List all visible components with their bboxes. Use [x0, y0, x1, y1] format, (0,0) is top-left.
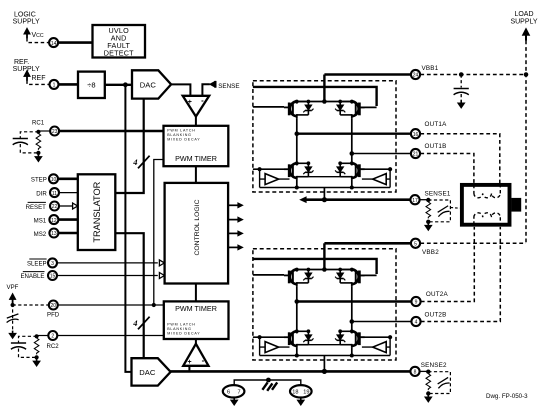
- node junction load supply: [524, 72, 529, 77]
- wire /8 to DAC1: [105, 84, 132, 86]
- svg-text:OUT2A: OUT2A: [426, 291, 449, 298]
- svg-text:5: 5: [414, 242, 417, 248]
- svg-text:OUT1A: OUT1A: [425, 121, 448, 128]
- wire dashed OUT2A to motor: [421, 227, 475, 302]
- svg-text:9: 9: [415, 300, 418, 306]
- wire driver2L drop: [259, 337, 261, 355]
- pin 5 VBB2: [411, 239, 420, 248]
- wire driver2R links: [362, 346, 390, 348]
- wire OUT2A node drop: [296, 286, 298, 331]
- transistor Q2 (bridge1 high-side B): [335, 100, 365, 119]
- node junction source1B: [350, 186, 354, 190]
- wire arrow gate drive 4: [228, 244, 244, 250]
- node junction sense1 R bottom: [426, 220, 430, 224]
- inductor winding 2 (bottom): [474, 213, 500, 225]
- svg-text:MS1: MS1: [34, 217, 47, 224]
- wire bridge1 right gate line bottom: [359, 168, 390, 170]
- resistor R-RC1: [36, 134, 41, 150]
- node junction sense1: [322, 197, 327, 202]
- wire dashed VCC to pin 14: [27, 38, 49, 43]
- wire OUT2B node drop: [351, 286, 353, 331]
- wire RC2 stub to external R: [37, 335, 49, 337]
- wire SENSE1 to external R: [420, 199, 429, 201]
- wire dashed VPF to PFD pin: [13, 304, 49, 306]
- wire driver1L drop: [259, 169, 261, 187]
- resistor R-SENSE1: [426, 202, 431, 218]
- node junction RC2 bottom: [35, 355, 39, 359]
- node bridge1 dashed box: [253, 81, 396, 192]
- svg-text:REF: REF: [32, 75, 46, 82]
- wire OUT1A node drop: [296, 118, 298, 163]
- op-amp comparator A2: [183, 344, 208, 366]
- wire dashed sense1 snubber box: [428, 200, 450, 222]
- svg-text:VCC: VCC: [32, 32, 44, 39]
- wire OUT1B node drop: [351, 118, 353, 163]
- svg-text:DETECT: DETECT: [104, 49, 134, 58]
- wire driver1L links: [260, 178, 290, 180]
- svg-text:DAC: DAC: [140, 81, 157, 90]
- ground pins 18 19: [297, 397, 304, 405]
- ground C-VBB1: [458, 100, 465, 108]
- pin 1 REF: [50, 80, 59, 89]
- wire bridge1 source rail: [260, 187, 391, 189]
- wire dashed load supply rail: [525, 41, 527, 244]
- wire bridge1 source stubs: [297, 180, 352, 188]
- wire ground link rail: [234, 380, 301, 386]
- wire bridge2 left gate line top: [253, 274, 284, 276]
- pin 2 RC2: [48, 331, 57, 340]
- transistor Q8 (bridge2 low-side B): [335, 329, 365, 348]
- wire dashed VBB1 cap lead: [460, 75, 462, 103]
- svg-text:7: 7: [237, 390, 240, 396]
- svg-text:DIR: DIR: [36, 190, 47, 197]
- wire bridge1 top gate rail: [253, 87, 377, 106]
- svg-text:STEP: STEP: [31, 177, 47, 184]
- svg-text:SENSE: SENSE: [218, 83, 239, 90]
- svg-text:PFD: PFD: [47, 311, 60, 318]
- node junction driver2L: [258, 335, 262, 339]
- pin 16 OUT1A: [411, 129, 420, 138]
- svg-text:RC2: RC2: [47, 343, 60, 350]
- node junction RC1 top: [36, 130, 40, 134]
- pin 13 MS2: [49, 229, 58, 238]
- block U1 UVLO AND FAULT DETECT: [93, 25, 146, 58]
- svg-text:15: 15: [50, 274, 56, 280]
- wire bridge1 left gate line top: [253, 106, 284, 108]
- svg-text:22: 22: [52, 204, 58, 210]
- wire SENSE1 line with arrow: [304, 198, 411, 201]
- op-amp gate driver 1R: [373, 174, 387, 185]
- wire bridge1 left gate line bottom: [253, 168, 284, 170]
- node bus slash 1: [138, 156, 150, 169]
- svg-text:PWM TIMER: PWM TIMER: [175, 154, 217, 163]
- wire VBB2 to bridge2: [324, 242, 411, 245]
- svg-text:VBB1: VBB1: [422, 65, 439, 72]
- svg-text:24: 24: [413, 73, 419, 79]
- wire MS2 to translator: [59, 232, 78, 235]
- node junction RC2 top: [35, 334, 39, 338]
- svg-text:RESET: RESET: [26, 204, 47, 211]
- svg-text:19: 19: [303, 390, 309, 396]
- wire VCC pin to UVLO: [58, 41, 92, 44]
- wire OUT1A from bridge1: [297, 132, 411, 134]
- pin 22 RESET: [50, 202, 59, 211]
- node junction driver1R: [388, 167, 392, 171]
- svg-text:OUT2B: OUT2B: [425, 311, 447, 318]
- node hook RESET input: [73, 203, 78, 209]
- svg-text:MIXED DECAY: MIXED DECAY: [167, 137, 200, 141]
- block PWM TIMER 1: [164, 126, 229, 166]
- node junction OUT2A: [295, 299, 300, 304]
- svg-text:TRANSLATOR: TRANSLATOR: [92, 181, 102, 242]
- node junction VBB1 drain: [322, 99, 327, 104]
- wire arrow gate drive 2: [228, 216, 244, 222]
- wire MS1 to translator: [59, 218, 78, 221]
- wire bridge2 lower diode link: [308, 344, 340, 346]
- wire bridge2 right gate line bottom: [359, 336, 390, 338]
- supply arrow REF: [24, 70, 31, 81]
- node junction ref line: [123, 82, 128, 87]
- svg-text:PWM LATCH: PWM LATCH: [167, 323, 196, 327]
- svg-text:2: 2: [51, 334, 54, 340]
- node junction RC1 bottom: [36, 151, 40, 155]
- svg-text:PWM LATCH: PWM LATCH: [167, 128, 196, 132]
- pin 12 MS1: [49, 215, 58, 224]
- svg-text:3: 3: [51, 261, 54, 267]
- svg-text:-: -: [201, 96, 204, 105]
- svg-text:4: 4: [415, 320, 418, 326]
- node bus slash 2: [138, 317, 150, 330]
- pin 3 SLEEP: [48, 258, 57, 267]
- node junction sense1 R: [426, 198, 430, 202]
- svg-text:SUPPLY: SUPPLY: [510, 19, 537, 26]
- wire REF pin to divider: [59, 83, 78, 86]
- supply arrow VCC: [24, 28, 31, 39]
- motor shaft tab: [511, 198, 521, 212]
- pin 10 STEP: [49, 174, 58, 183]
- pin 8 SENSE2: [410, 367, 419, 376]
- node junction VBB1 cap: [459, 72, 464, 77]
- wire SENSE flag to comparator minus: [202, 84, 209, 96]
- node junction sense2: [322, 369, 327, 374]
- node hook SLEEP input: [159, 260, 164, 266]
- svg-text:MS2: MS2: [34, 231, 47, 238]
- pin 9 OUT2A: [411, 297, 420, 306]
- wire dashed REF to pin 1: [27, 80, 49, 84]
- wire comparator2 plus stub: [188, 366, 190, 372]
- op-amp gate driver 2L: [265, 342, 279, 353]
- wire PWM1 to control logic: [195, 166, 197, 183]
- svg-text:21: 21: [413, 152, 419, 158]
- svg-text:OUT1B: OUT1B: [425, 143, 447, 150]
- ground RC2: [33, 358, 40, 366]
- wire bus translator to DAC1: [115, 99, 143, 193]
- svg-text:SUPPLY: SUPPLY: [13, 19, 40, 26]
- ground R-SENSE1: [425, 223, 432, 231]
- wire PWM2 to comparator2: [195, 339, 197, 344]
- wire SLEEP to control logic hook: [57, 262, 158, 264]
- node junction OUT1B: [350, 151, 355, 156]
- wire RC1 stub to external R: [38, 130, 50, 132]
- wire driver1R links: [362, 178, 390, 180]
- wire bridge2 source stubs: [297, 348, 352, 356]
- transistor Q5 (bridge2 high-side A): [284, 268, 314, 287]
- svg-text:BLANKING: BLANKING: [167, 133, 192, 137]
- wire Q6 gate link: [359, 274, 377, 276]
- supply arrow LOAD: [522, 28, 530, 41]
- pin 15 ENABLE: [48, 271, 57, 280]
- node junction OUT1A: [295, 131, 300, 136]
- svg-text:8: 8: [414, 370, 417, 376]
- op-amp gate driver 2R: [373, 342, 387, 353]
- wire RC2 to PWM2: [58, 335, 164, 337]
- svg-text:SLEEP: SLEEP: [27, 260, 47, 267]
- transistor Q3 (bridge1 low-side A): [284, 161, 314, 180]
- wire VBB1 to bridge1: [324, 73, 411, 76]
- pin 20 PFD: [49, 301, 58, 310]
- svg-text:20: 20: [51, 303, 57, 309]
- wire arrow gate drive 3: [228, 230, 244, 236]
- svg-text:REF.: REF.: [14, 59, 29, 66]
- node junction sense2 R bottom: [426, 391, 430, 395]
- wire control logic to PWM2: [195, 284, 197, 302]
- node hook ENABLE input: [159, 273, 164, 279]
- block TRANSLATOR: [78, 174, 116, 250]
- capacitor C-RC2: [11, 343, 26, 349]
- ground R-SENSE2: [425, 394, 432, 402]
- wire DIR to translator: [59, 192, 78, 194]
- op-amp gate driver 1L: [265, 174, 279, 185]
- pin 23 RC1: [50, 127, 59, 136]
- pin 21 OUT1B: [411, 149, 420, 158]
- wire comparator1 to PWM1: [195, 117, 197, 126]
- wire dashed OUT1A to motor: [420, 134, 500, 183]
- pin 14 VCC: [49, 38, 58, 47]
- svg-text:14: 14: [51, 41, 57, 47]
- svg-text:17: 17: [412, 198, 418, 204]
- wire RESET to translator hook: [59, 205, 72, 207]
- wire DAC1 to comparator plus: [171, 84, 190, 95]
- svg-text:16: 16: [413, 132, 419, 138]
- svg-text:6: 6: [227, 390, 230, 396]
- wire bridge1 drain rail: [297, 101, 352, 103]
- svg-text:BLANKING: BLANKING: [167, 327, 192, 331]
- wire PFD rail up to PWM1: [154, 160, 164, 306]
- transistor Q7 (bridge2 low-side A): [284, 329, 314, 348]
- node SENSE input flag: [210, 81, 215, 87]
- capacitor PFD tilted: [7, 314, 19, 323]
- node junction driver2R: [388, 335, 392, 339]
- wire SENSE2 feedback line: [171, 370, 411, 373]
- svg-text:SENSE2: SENSE2: [421, 362, 447, 369]
- node junction sense2 R: [426, 370, 430, 374]
- resistor R-SENSE2: [426, 374, 431, 390]
- svg-text:23: 23: [52, 129, 58, 135]
- ground pins 6 7: [231, 397, 238, 405]
- capacitor C-VBB1: [454, 89, 469, 95]
- ground VPF: [9, 331, 16, 339]
- wire OUT2A from bridge2: [297, 300, 412, 302]
- pin 11 DIR: [50, 188, 59, 197]
- node junction source2A: [295, 354, 299, 358]
- svg-text:4: 4: [132, 157, 137, 167]
- svg-text:LOAD: LOAD: [514, 11, 533, 18]
- ground power symbol (hatched): [262, 382, 277, 390]
- node junction ground center: [266, 378, 271, 383]
- svg-text:VBB2: VBB2: [422, 249, 439, 256]
- node junction driver1L: [258, 167, 262, 171]
- svg-text:1: 1: [53, 83, 56, 89]
- ground RC1: [35, 154, 42, 162]
- node junction VBB2 drain: [322, 267, 327, 272]
- capacitor C-SENSE1 tilted: [437, 206, 451, 217]
- node junction VPF: [11, 303, 15, 307]
- wire sense1 drop: [323, 188, 325, 200]
- svg-text:PWM TIMER: PWM TIMER: [175, 304, 217, 313]
- svg-text:RC1: RC1: [32, 120, 45, 127]
- motor M1 frame: [462, 185, 510, 225]
- pin 18 19 ground oval: [290, 385, 312, 397]
- wire SENSE2 to external R: [420, 370, 429, 372]
- block PWM TIMER 2: [164, 301, 229, 339]
- transistor Q4 (bridge1 low-side B): [335, 161, 365, 180]
- svg-text:+: +: [188, 99, 192, 106]
- svg-text:CONTROL LOGIC: CONTROL LOGIC: [194, 199, 201, 255]
- svg-text:12: 12: [51, 218, 57, 224]
- op-amp DAC U3 (pentagon): [132, 358, 171, 385]
- pin 6 7 ground oval: [223, 385, 245, 397]
- wire bridge2 top gate rail: [253, 259, 377, 274]
- wire driver2R drop: [389, 337, 391, 355]
- pin 24 VBB1: [411, 70, 420, 79]
- node bridge2 dashed box: [253, 249, 396, 360]
- pin 4 OUT2B: [411, 317, 420, 326]
- wire dashed OUT1B to motor: [420, 154, 474, 184]
- wire OUT2B from bridge2: [352, 321, 412, 323]
- supply arrow VPF: [9, 293, 16, 304]
- svg-text:13: 13: [51, 231, 57, 237]
- svg-text:÷8: ÷8: [87, 80, 95, 89]
- wire Q2 gate link: [359, 106, 377, 108]
- transistor Q6 (bridge2 high-side B): [335, 268, 365, 287]
- wire bridge2 left gate line bottom: [253, 336, 284, 338]
- block divider /8: [78, 72, 105, 98]
- wire dashed VBB2 to load supply: [420, 242, 526, 244]
- svg-text:Dwg. FP-050-3: Dwg. FP-050-3: [486, 393, 528, 400]
- wire bridge1 lower diode link: [308, 176, 340, 178]
- op-amp comparator A1: [183, 96, 210, 117]
- svg-text:SENSE1: SENSE1: [425, 190, 451, 197]
- pin 17 SENSE1: [410, 195, 419, 204]
- svg-text:18: 18: [292, 390, 298, 396]
- svg-text:10: 10: [51, 177, 57, 183]
- wire dashed VPF down: [12, 304, 14, 331]
- node junction source1A: [295, 186, 299, 190]
- wire dashed RC1 cap loop: [20, 132, 38, 153]
- svg-text:ENABLE: ENABLE: [20, 273, 44, 280]
- svg-text:-: -: [202, 356, 205, 365]
- block CONTROL LOGIC: [165, 183, 229, 284]
- capacitor C-SENSE2 tilted: [437, 377, 451, 388]
- wire driver1R drop: [389, 169, 391, 187]
- wire VBB1 entry: [323, 75, 325, 102]
- wire dashed RC2 cap loop: [19, 336, 37, 357]
- capacitor C-RC1: [13, 139, 28, 145]
- wire RC1 to PWM1: [59, 130, 163, 133]
- wire PFD to PWM2: [58, 304, 164, 306]
- node junction OUT2B: [350, 319, 355, 324]
- wire sense2 drop: [323, 356, 325, 372]
- node junction PFD branch: [152, 303, 156, 307]
- svg-text:LOGIC: LOGIC: [14, 12, 36, 19]
- svg-text:DAC: DAC: [139, 368, 156, 377]
- wire dashed snubber1 to motor: [451, 207, 460, 210]
- wire ENABLE to control logic hook: [57, 275, 158, 277]
- wire VBB2 entry: [323, 243, 325, 269]
- op-amp DAC U2 (pentagon): [132, 70, 171, 98]
- wire bus translator to DAC2: [115, 233, 143, 358]
- inductor winding 1 (top): [474, 185, 500, 198]
- wire dashed VBB1 to load supply: [420, 74, 526, 76]
- svg-text:4: 4: [132, 318, 137, 328]
- wire STEP to translator: [58, 178, 78, 181]
- wire dashed sense2 snubber box: [428, 372, 450, 394]
- wire bridge2 source rail: [260, 355, 391, 357]
- wire dashed OUT2B to motor: [421, 227, 501, 322]
- node junction source2B: [350, 354, 354, 358]
- wire ref rail down to DAC2: [125, 85, 131, 372]
- wire driver2L links: [260, 346, 290, 348]
- resistor R-RC2: [34, 338, 39, 354]
- svg-text:+: +: [188, 359, 192, 366]
- svg-text:11: 11: [52, 191, 57, 197]
- svg-text:VPF: VPF: [7, 284, 19, 291]
- svg-text:MIXED DECAY: MIXED DECAY: [167, 332, 200, 336]
- wire arrow gate drive 1: [228, 202, 244, 208]
- transistor Q1 (bridge1 high-side A): [284, 100, 314, 119]
- wire OUT1B from bridge1: [352, 153, 411, 155]
- wire bridge2 drain rail: [297, 269, 352, 271]
